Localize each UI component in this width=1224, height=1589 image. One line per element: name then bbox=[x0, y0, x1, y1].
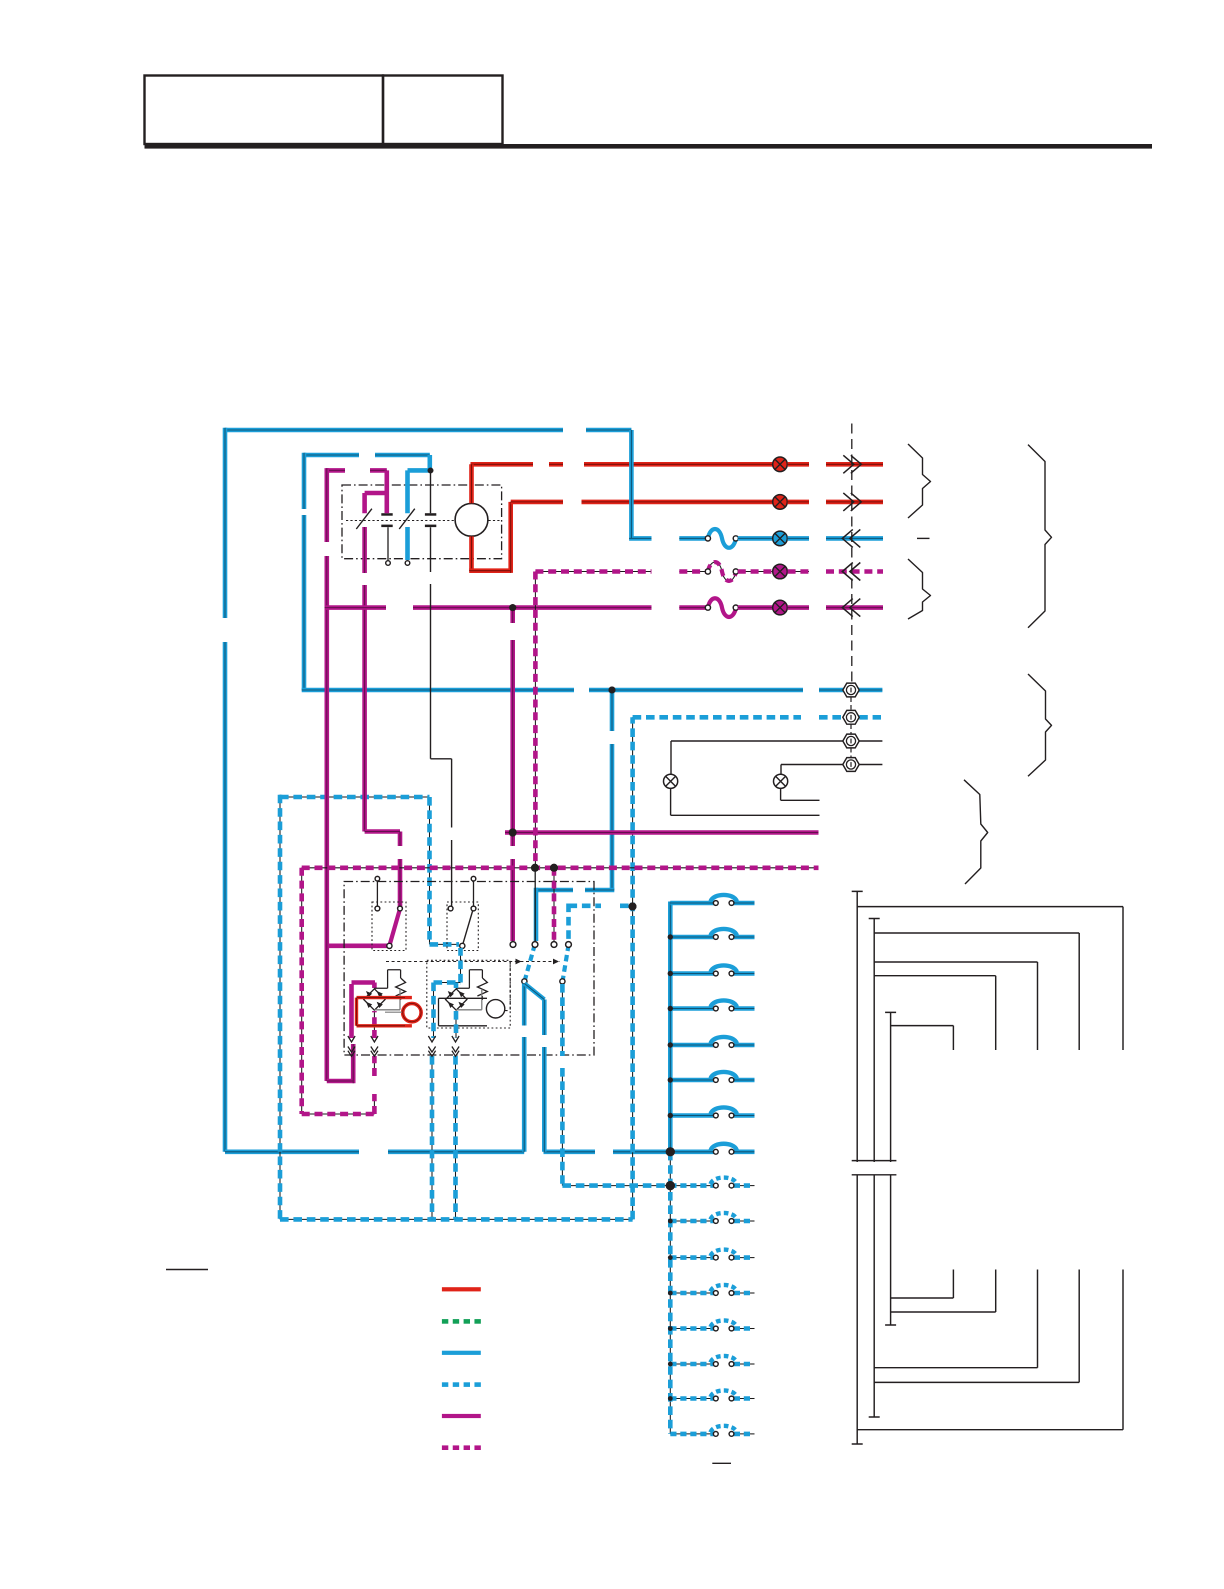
motor M1 bbox=[455, 503, 488, 536]
wire magenta row4 connector stub bbox=[826, 569, 883, 574]
wire magenta shielded diode leg bbox=[373, 983, 375, 1039]
wire magenta jog to switch bbox=[365, 832, 400, 907]
wire magenta row5 tail bbox=[788, 605, 809, 610]
wire magenta shielded drop x554 bbox=[553, 868, 555, 941]
connector chevrons row5 bbox=[850, 599, 861, 617]
ground bolt B4 bbox=[843, 758, 859, 772]
wire blue shielded box top bbox=[280, 796, 430, 798]
ground bolt B2 bbox=[843, 710, 859, 724]
ground bolt B3 bbox=[843, 734, 859, 748]
wire blue drop x612 bbox=[610, 690, 615, 890]
motor M3 bbox=[486, 1000, 504, 1018]
ladder rung 14 bbox=[670, 1363, 713, 1365]
node ladder big junction bbox=[666, 1147, 675, 1156]
wire shielded row9 left bbox=[562, 1185, 668, 1187]
node ladder dashed junction bbox=[666, 1181, 675, 1190]
relay housing RH2 bbox=[427, 960, 510, 1028]
node blue T bbox=[609, 687, 616, 694]
wire blue dashed to pivot P2 bbox=[430, 943, 460, 945]
frame branch T5 bbox=[891, 1026, 954, 1050]
terminal circle under U1 a bbox=[386, 561, 391, 566]
fuse F3 bbox=[708, 598, 736, 617]
wire magenta row y832 bbox=[505, 830, 819, 835]
frame break bars bbox=[852, 1161, 897, 1175]
wire magenta drop x513 bbox=[510, 608, 515, 941]
fuse F2 bbox=[708, 562, 736, 581]
pivot SW3 bbox=[522, 979, 527, 984]
wire cyan inner rect top bbox=[304, 453, 430, 458]
wire magenta outer top bbox=[327, 468, 387, 473]
contact circles SW2 bbox=[448, 906, 453, 911]
frame branch B2 bbox=[874, 1270, 1079, 1383]
ground bolt B1 bbox=[843, 683, 859, 697]
ladder rung 10 bbox=[670, 1220, 713, 1222]
legend blue solid bbox=[442, 1351, 481, 1355]
switch arm SW2 bbox=[462, 910, 473, 946]
wire red row2 tail bbox=[788, 500, 809, 505]
node blue dashed junction bbox=[629, 903, 637, 911]
legend magenta solid bbox=[442, 1414, 481, 1418]
fuse F1 bbox=[708, 529, 736, 548]
wire magenta shielded fuse row4 bbox=[535, 571, 651, 573]
header rule bbox=[145, 144, 1153, 149]
wire red row1 connector stub bbox=[826, 462, 883, 467]
wire blue dashed top row y717 bbox=[633, 715, 881, 720]
wire blue row3 tail bbox=[788, 536, 809, 541]
brace 2 bbox=[908, 559, 931, 619]
wire blue shelf y890 bbox=[536, 888, 614, 893]
switch arm SW1 bbox=[390, 909, 400, 945]
switch housing SW2 bbox=[447, 902, 478, 951]
ladder rung 4 bbox=[670, 1006, 713, 1011]
wire blue dashed drop x568 bbox=[566, 904, 571, 942]
wire blue shielded riser x632 bbox=[632, 717, 634, 1219]
contact plates K1 bbox=[381, 513, 392, 516]
connector chevrons row4 bbox=[850, 563, 861, 581]
switch slash S1 bbox=[356, 509, 372, 529]
wire magenta fuse row5 bbox=[325, 605, 652, 610]
wire blue dashed relay2 right drop bbox=[455, 983, 457, 1039]
wire blue dashed below box x432 bbox=[431, 1056, 433, 1219]
brace 3 bbox=[964, 780, 988, 884]
legend magenta dashed bbox=[442, 1445, 448, 1450]
wire cyan inner rect left bbox=[302, 453, 307, 690]
switch slash S2 bbox=[399, 509, 415, 529]
contact plates K2 bbox=[425, 513, 436, 516]
wire cyan bottom run bbox=[302, 688, 883, 693]
wire magenta shielded bottom bbox=[302, 1113, 375, 1115]
wire blue dashed relay2 left drop bbox=[433, 983, 435, 1039]
relay2 frame bbox=[439, 998, 488, 1026]
ladder rung 1 bbox=[670, 901, 713, 906]
diode bridge D2 bbox=[446, 989, 467, 1010]
relay box U2 border bbox=[344, 882, 594, 1056]
ladder bus solid bbox=[668, 902, 673, 1152]
wire black lamp row3 bbox=[671, 740, 882, 742]
wire blue shielded box left bbox=[279, 795, 281, 1220]
wire magenta switch leg x365 bbox=[362, 527, 367, 832]
wire blue dashed from pivot SW4 bbox=[561, 984, 563, 1186]
legend green dashed bbox=[442, 1319, 448, 1324]
frame branch T4 bbox=[874, 976, 996, 1050]
node magenta y832 junction bbox=[509, 829, 517, 837]
wire blue row3 connector stub bbox=[826, 536, 883, 541]
terminal T2 bbox=[471, 876, 476, 881]
ladder rung 15 bbox=[670, 1398, 713, 1400]
pivot SW2 bbox=[460, 943, 465, 948]
wire red row2 connector stub bbox=[826, 500, 883, 505]
wire red feed row1 bbox=[471, 462, 773, 467]
wire blue drop to fuse row bbox=[629, 430, 651, 538]
ladder rung 12 bbox=[670, 1292, 713, 1294]
brace 4 bbox=[1028, 445, 1052, 628]
switch housing SW1 bbox=[372, 902, 406, 951]
connector frame V1 bbox=[856, 891, 858, 1444]
motor M2 highlight bbox=[357, 998, 412, 1026]
brace 1 bbox=[908, 444, 931, 518]
wire blue bottom row bbox=[225, 1150, 670, 1155]
relay1 linkage bbox=[374, 989, 400, 1010]
title block cell 1 bbox=[145, 76, 384, 145]
pivot SW1 bbox=[387, 943, 392, 948]
wire blue shielded box bottom bbox=[280, 1218, 633, 1220]
switch arm SW3 bbox=[525, 945, 535, 981]
ladder bus shielded bbox=[669, 1152, 671, 1434]
wire magenta shielded big-left edge bbox=[301, 868, 303, 1114]
wire arrows at box2 bottom bbox=[348, 1036, 355, 1042]
lamp L2 bbox=[780, 765, 782, 775]
bolt link wires bbox=[850, 698, 852, 758]
wire blue shielded box right bbox=[429, 797, 431, 944]
resistor R2 bbox=[456, 970, 482, 989]
ladder rung 6 bbox=[670, 1078, 713, 1083]
legend red solid bbox=[442, 1287, 481, 1291]
link drop to motor M3 bbox=[505, 962, 511, 1011]
note line bottom bbox=[712, 1462, 731, 1464]
wire red vertical to motor M1 bbox=[469, 464, 474, 570]
ladder rung 16 bbox=[670, 1433, 713, 1435]
node magenta shielded junction2 bbox=[550, 864, 558, 872]
wire black drop x535 bbox=[534, 868, 536, 941]
relay U1 internal axis bbox=[346, 520, 501, 522]
connector line CN1 bbox=[851, 424, 853, 683]
wire magenta row4 tail bbox=[788, 571, 809, 573]
brace 5 bbox=[1028, 674, 1052, 776]
wire red row1 tail bbox=[788, 462, 809, 467]
relay box U1 border bbox=[342, 485, 502, 559]
title block cell 2 bbox=[383, 76, 503, 145]
wire red jog to row2 bbox=[469, 502, 511, 573]
wire black from node A bbox=[428, 468, 434, 474]
ladder rung 8 bbox=[670, 1150, 713, 1155]
ladder rung 3 bbox=[670, 971, 713, 976]
node magenta row5 junction bbox=[509, 604, 516, 611]
ladder rung 11 bbox=[670, 1257, 713, 1259]
wire cyan U to switch S2 bbox=[408, 455, 432, 560]
mechanical link bbox=[386, 961, 560, 963]
note line left bbox=[166, 1269, 208, 1271]
motor M2 ring bbox=[403, 1003, 421, 1021]
resistor R1 bbox=[374, 970, 400, 989]
frame branch T3 bbox=[874, 962, 1037, 1050]
legend blue dashed bbox=[442, 1382, 448, 1387]
contact circles row y945 bbox=[510, 942, 516, 948]
frame branch T2 bbox=[874, 933, 1079, 1050]
terminal circle under U1 b bbox=[405, 561, 410, 566]
wire magenta relay internal bbox=[352, 983, 376, 1039]
ladder rung 2 bbox=[670, 935, 713, 940]
lamp symbol red row2 bbox=[773, 495, 788, 510]
frame branch B5 bbox=[891, 1270, 954, 1299]
wire blue dashed row y906 bbox=[569, 903, 631, 908]
relay2 linkage bbox=[456, 989, 482, 1010]
lamp symbol blue row3 bbox=[773, 531, 788, 546]
lamp L1 bbox=[670, 741, 672, 774]
junction dots overlay bbox=[428, 468, 434, 474]
wire blue drop to contact bbox=[534, 888, 539, 941]
wire magenta U bottom left bbox=[327, 1044, 353, 1083]
connector frame V3 bbox=[890, 1012, 892, 1325]
wire magenta left drop x327 bbox=[324, 468, 329, 1081]
wire blue dashed relay2 feed bbox=[460, 948, 462, 983]
terminal T1 bbox=[375, 876, 380, 881]
wire magenta U top bbox=[365, 470, 387, 513]
wire magenta shielded row y868 bbox=[302, 867, 819, 869]
wire black lamp row4 bbox=[781, 764, 882, 766]
connector frame V2 bbox=[873, 919, 875, 1418]
wire blue fuse row3 bbox=[679, 536, 706, 541]
frame branch B1 bbox=[857, 1270, 1123, 1430]
wire magenta shielded right leg bbox=[373, 1056, 375, 1114]
connector chevrons row2 bbox=[843, 493, 854, 511]
ladder rung 5 bbox=[670, 1043, 713, 1048]
pivot SW4 bbox=[560, 979, 565, 984]
frame branch B3 bbox=[874, 1270, 1037, 1368]
wire blue solid from pivot SW3 bbox=[522, 984, 527, 1152]
lamp symbol magenta row5 bbox=[773, 600, 788, 615]
motor M2 inner wire bbox=[385, 1011, 402, 1013]
wire magenta row5 connector stub bbox=[826, 605, 883, 610]
lamp symbol red row1 bbox=[773, 457, 788, 472]
lamp symbol magenta row4 bbox=[773, 564, 788, 579]
wire blue main loop top bbox=[225, 428, 631, 433]
connector chevrons row3 bbox=[850, 529, 861, 547]
frame branch B4 bbox=[891, 1270, 996, 1313]
diode bridge D1 bbox=[364, 989, 385, 1010]
switch arm SW4 bbox=[563, 945, 569, 981]
ladder rung 13 bbox=[670, 1328, 713, 1330]
connector chevrons row1 bbox=[843, 455, 854, 473]
node magenta shielded junction1 bbox=[531, 864, 539, 872]
contact circles SW1 bbox=[375, 906, 380, 911]
dash mark right of row3 bbox=[917, 537, 930, 539]
wire red row2 bbox=[511, 500, 773, 505]
ladder rung 7 bbox=[670, 1113, 713, 1118]
frame branch T1 bbox=[857, 907, 1123, 1050]
wire magenta shielded left edge bbox=[534, 572, 536, 868]
wire blue main loop left bbox=[223, 428, 228, 1152]
ladder rung 9 bbox=[670, 1185, 713, 1187]
wire blue dashed below box x455 bbox=[455, 1056, 457, 1219]
wire magenta pivot feed y946 bbox=[328, 943, 388, 948]
